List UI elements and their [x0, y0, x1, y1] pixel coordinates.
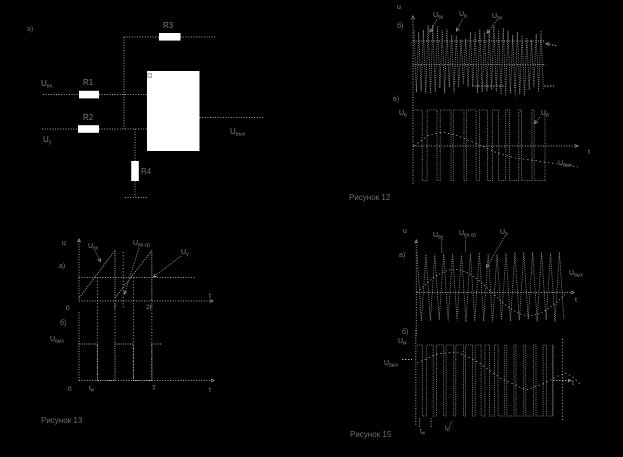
y-axis arrow fig12	[412, 16, 415, 19]
op-amp U1 comparator block	[147, 71, 200, 151]
time axis arrow fig15 bottom	[568, 379, 571, 382]
average sine fig15 bottom	[417, 352, 580, 390]
svg-text:а): а)	[59, 263, 65, 270]
op-amp symbol mark	[148, 74, 151, 78]
threshold line Uy fig13	[79, 277, 196, 279]
svg-text:а): а)	[27, 26, 33, 33]
svg-text:0: 0	[66, 305, 70, 312]
arrow Uv fig15	[487, 236, 506, 268]
svg-text:Рисунок 13: Рисунок 13	[41, 416, 83, 425]
wire R4 to ground	[134, 181, 136, 197]
svg-text:R3: R3	[163, 21, 174, 30]
arrow Uvx2 fig12	[487, 20, 497, 33]
wire top feedback left segment	[124, 36, 159, 38]
ramp 2 drop fig13	[151, 251, 153, 301]
arrow Uy fig13	[154, 256, 182, 277]
wire feedback vertical	[123, 37, 125, 129]
dash after Uvyx fig15	[402, 359, 412, 361]
svg-text:u: u	[403, 228, 407, 235]
y-axis arrow fig13 top	[78, 239, 81, 242]
y-axis fig15 bottom	[415, 330, 417, 425]
pointer Uvx.sr fig15	[465, 238, 467, 254]
arrowhead Uv fig12	[457, 28, 460, 32]
arrow Uvx.sr fig13	[125, 248, 140, 294]
svg-text:б): б)	[60, 319, 66, 327]
triangular carrier fig15 top	[417, 252, 564, 322]
wire R2 to op-amp input	[99, 128, 147, 130]
svg-text:u: u	[62, 240, 66, 247]
threshold line Up fig12 top	[413, 40, 544, 42]
svg-text:t': t'	[114, 304, 117, 311]
svg-text:T: T	[152, 385, 156, 392]
arrowhead Uvx fig13	[98, 258, 101, 262]
time axis arrow fig13 bottom	[211, 379, 214, 382]
timing line drop1 fig13	[114, 300, 116, 344]
svg-text:t: t	[209, 387, 211, 394]
arrowhead pointer fig12 top	[546, 43, 549, 46]
modulating sine fig15 top	[417, 270, 565, 316]
time axis fig12 bottom	[413, 145, 576, 147]
time axis arrow fig13 top	[210, 300, 213, 303]
dashed pointer right fig12 top	[546, 44, 557, 47]
svg-text:б): б)	[402, 328, 408, 336]
marker ti left fig15	[419, 419, 421, 428]
average output sine fig12 bottom	[414, 132, 578, 167]
wire output	[200, 117, 264, 119]
y-axis arrow fig15 top	[415, 240, 418, 243]
arrowhead Uvx.sr fig13	[124, 291, 127, 295]
svg-text:Рисунок 12: Рисунок 12	[349, 193, 391, 202]
time axis fig15 top	[416, 292, 572, 294]
svg-text:в): в)	[393, 96, 399, 103]
timing line drop2 fig13	[151, 300, 153, 381]
marker ti right fig15	[430, 419, 432, 428]
y-axis fig13 bottom	[78, 312, 80, 381]
PWM square wave fig12 bottom	[414, 110, 545, 181]
arrowhead Uvx fig12	[430, 29, 433, 33]
square wave output fig13	[80, 344, 163, 381]
time axis fig13 bottom	[79, 380, 212, 382]
timing line aux fig13	[122, 252, 124, 308]
svg-text:u: u	[397, 4, 401, 11]
pointer Uvx fig15	[441, 239, 443, 253]
dashed envelope right fig12 top	[544, 85, 554, 87]
svg-text:R2: R2	[83, 113, 94, 122]
time axis arrow fig12 bottom	[575, 145, 578, 148]
wire Uy to R2	[42, 128, 78, 130]
resistor R3	[159, 33, 181, 41]
resistor R2	[78, 125, 99, 133]
resistor R1	[79, 91, 99, 99]
time axis arrow fig15 top	[571, 291, 574, 294]
timing line crossing2 fig13	[132, 278, 134, 381]
y-axis fig12	[412, 19, 414, 185]
arrow Uvx fig13	[95, 251, 101, 262]
time axis fig12 top	[413, 64, 546, 66]
svg-text:Рисунок 15: Рисунок 15	[350, 430, 392, 439]
svg-text:0: 0	[68, 386, 72, 393]
ramp 1 drop fig13	[114, 251, 116, 300]
arrowhead Uv fig15	[487, 264, 490, 268]
svg-text:а): а)	[399, 252, 405, 259]
ramp 2 fig13	[115, 251, 152, 299]
svg-text:t: t	[209, 293, 211, 300]
ramp 1 fig13	[80, 251, 116, 298]
wire Uvx to R1	[43, 94, 79, 96]
carrier waveform fig12 top	[414, 25, 543, 96]
svg-text:R1: R1	[83, 78, 94, 87]
arrowhead Uv right fig12	[535, 120, 538, 123]
timing line crossing1 fig13	[96, 278, 98, 381]
wire R1 to op-amp input	[99, 94, 147, 96]
svg-text:б): б)	[397, 22, 403, 30]
y-axis fig15 top	[415, 242, 417, 336]
arrowhead Uvx2 fig12	[487, 30, 490, 33]
arrow Uv fig12	[457, 19, 464, 32]
end timing line fig15 bottom	[562, 339, 564, 420]
svg-text:R4: R4	[141, 167, 152, 176]
arrowhead Uy fig13	[154, 274, 157, 277]
PWM square wave fig15 bottom	[417, 345, 553, 416]
dashed envelope segment fig12 top	[472, 85, 505, 87]
arrow Uv right fig12 bottom	[535, 117, 541, 124]
wire top feedback right segment	[181, 36, 217, 38]
resistor R4	[131, 161, 139, 181]
arrow t_p fig15	[449, 421, 452, 428]
ground	[125, 197, 147, 199]
time axis stub fig15 bottom	[553, 380, 569, 382]
time axis fig13 top	[79, 300, 211, 302]
wire node to R4	[134, 129, 136, 161]
y-axis fig13 top	[78, 241, 80, 301]
svg-text:t: t	[575, 297, 577, 304]
svg-text:t: t	[588, 149, 590, 156]
svg-text:t: t	[572, 380, 574, 387]
arrow Uvx fig12	[430, 20, 437, 33]
